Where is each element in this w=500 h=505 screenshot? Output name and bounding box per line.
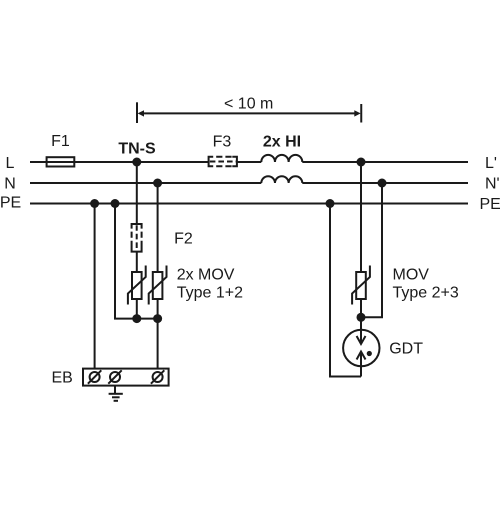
node junction dot N right [378, 179, 387, 188]
svg-text:Type 2+3: Type 2+3 [393, 285, 459, 302]
wire from N junction down to varistor RV2 [157, 183, 159, 272]
svg-text:GDT: GDT [389, 341, 423, 358]
node junction dot PE left B [111, 199, 120, 208]
terminal 1 on EB bar [88, 370, 101, 383]
ground symbol [109, 386, 123, 401]
node junction dot above GDT [357, 313, 366, 322]
wire L right junction down to varistor RV3 [360, 162, 362, 272]
node junction dot PE right [326, 199, 335, 208]
node junction dot PE left A [90, 199, 99, 208]
fuse F3 (dashed disconnect) [209, 157, 237, 166]
terminal 3 on EB bar [151, 370, 164, 383]
fuse F1 [47, 157, 75, 166]
svg-text:2x MOV: 2x MOV [177, 267, 235, 284]
gas discharge tube GDT [343, 317, 379, 376]
wire PE drop at x94.6 down to EB bar [94, 204, 96, 369]
svg-text:< 10 m: < 10 m [224, 96, 273, 113]
wire N line left segment [30, 182, 261, 184]
wire L line middle segment (F3 to inductor) [237, 161, 261, 163]
wire from TN-S down to F2 [136, 162, 138, 224]
node junction dot on N [153, 179, 162, 188]
svg-text:TN-S: TN-S [118, 141, 156, 158]
node junction dot MOV bottom left [132, 314, 141, 323]
svg-text:L': L' [485, 155, 497, 172]
dimension arrow < 10 m [137, 102, 361, 123]
svg-text:PE: PE [480, 196, 500, 213]
node TN-S junction dot on L [132, 158, 141, 167]
wire RV1 bottom to junction [136, 299, 138, 319]
wire L line left segment [30, 161, 209, 163]
svg-text:L: L [6, 155, 15, 172]
svg-text:F2: F2 [174, 231, 193, 248]
wire MOV junction down to EB bar [157, 319, 159, 369]
svg-text:F1: F1 [51, 133, 70, 150]
wire N line right segment [302, 182, 468, 184]
wire PE line [30, 203, 468, 205]
svg-text:PE: PE [0, 195, 21, 212]
wire RV2 bottom to junction [157, 299, 159, 319]
equipotential bonding bar EB [83, 369, 169, 386]
inductor HI on N line [261, 176, 302, 183]
wire PE drop at x115 with corner to MOV junction [115, 204, 158, 319]
node junction dot L right [357, 158, 366, 167]
varistor RV3 (MOV) [352, 266, 370, 305]
wire N right drop with corner to GDT junction [361, 183, 382, 317]
wire from F2 down to varistor RV1 [136, 252, 138, 272]
svg-text:N: N [4, 176, 16, 193]
svg-text:N': N' [485, 176, 500, 193]
wire RV3 bottom to GDT junction [360, 299, 362, 317]
wire L line right segment [302, 161, 468, 163]
svg-text:Type 1+2: Type 1+2 [177, 285, 243, 302]
svg-text:EB: EB [52, 370, 73, 387]
varistor RV1 (MOV) [128, 266, 146, 305]
node junction dot MOV bottom right [153, 314, 162, 323]
svg-text:F3: F3 [213, 134, 232, 151]
svg-text:MOV: MOV [393, 267, 430, 284]
terminal 2 on EB bar [108, 370, 121, 383]
wire PE right drop with corner to GDT bottom [330, 204, 361, 377]
inductor HI on L line [261, 155, 302, 162]
svg-text:2x HI: 2x HI [263, 134, 301, 151]
fuse F2 (dashed disconnect, vertical) [132, 224, 142, 252]
varistor RV2 (MOV) [149, 266, 167, 305]
